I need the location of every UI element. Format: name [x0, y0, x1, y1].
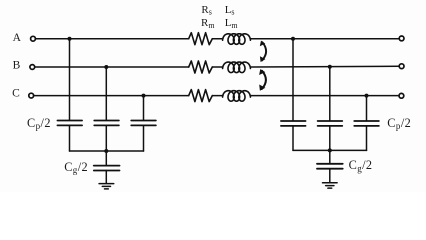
capacitor Cg/2 right — [317, 150, 343, 182]
junction row A right — [291, 37, 295, 41]
wire left column 2 upper — [105, 67, 107, 120]
terminal circle right B — [399, 64, 404, 69]
wire row B middle segment — [212, 66, 223, 68]
mutual coupling arrow B-C — [259, 69, 266, 91]
capacitor Cp/2 left 1 — [57, 121, 82, 126]
inductor Ls row A — [223, 34, 251, 45]
junction row B left — [104, 65, 108, 69]
wire right column 2 upper — [329, 67, 331, 121]
wire row C right segment — [250, 95, 399, 97]
junction bus left — [104, 149, 108, 153]
wire right column 1 upper — [292, 39, 294, 121]
wire row A left segment — [36, 38, 189, 40]
inductor Lm row C — [223, 91, 251, 102]
wire right column 3 lower — [366, 126, 368, 150]
capacitor Cp/2 right 3 — [354, 121, 379, 126]
junction row C right — [365, 94, 369, 98]
capacitor Cp/2 left 3 — [131, 121, 156, 126]
terminal circle left C — [29, 93, 34, 98]
resistor Rm row B — [189, 61, 213, 73]
inductor Lm row B — [223, 62, 251, 73]
wire right column 3 upper — [366, 96, 368, 121]
svg-text:B: B — [13, 60, 21, 72]
resistor Rs row A — [189, 33, 213, 45]
junction row C left — [142, 94, 146, 98]
capacitor Cp/2 right 1 — [281, 121, 306, 126]
svg-text:C: C — [12, 88, 20, 100]
wire row B right segment — [250, 65, 399, 68]
wire row B left segment — [35, 66, 189, 68]
wire row A right segment — [250, 38, 399, 40]
wire row A middle segment — [212, 38, 223, 40]
mutual coupling arrow A-B — [260, 41, 266, 62]
wire row C left segment — [34, 95, 189, 97]
capacitor Cp/2 right 2 — [318, 121, 343, 126]
wire right column 2 lower — [329, 126, 331, 150]
capacitor Cp/2 left 2 — [94, 121, 119, 126]
junction bus right — [328, 148, 332, 152]
wire left column 1 lower — [69, 126, 71, 151]
junction row A left — [68, 37, 72, 41]
wire left column 2 lower — [105, 126, 107, 151]
wire left column 1 upper — [69, 39, 71, 121]
ground left — [99, 184, 114, 189]
svg-text:A: A — [13, 32, 22, 44]
wire left column 3 lower — [143, 126, 145, 151]
wire right column 1 lower — [292, 126, 294, 150]
terminal circle right C — [399, 93, 404, 98]
wire row C middle segment — [212, 95, 223, 97]
wire left column 3 upper — [143, 96, 145, 121]
ground right — [323, 183, 338, 188]
terminal circle left A — [31, 36, 36, 41]
wire bottom bus right — [293, 149, 367, 151]
wire bottom bus left — [70, 150, 144, 152]
resistor Rm row C — [189, 90, 213, 102]
capacitor Cg/2 left — [94, 151, 120, 183]
terminal circle right A — [399, 36, 404, 41]
junction row B right — [328, 65, 332, 69]
terminal circle left B — [30, 65, 35, 70]
